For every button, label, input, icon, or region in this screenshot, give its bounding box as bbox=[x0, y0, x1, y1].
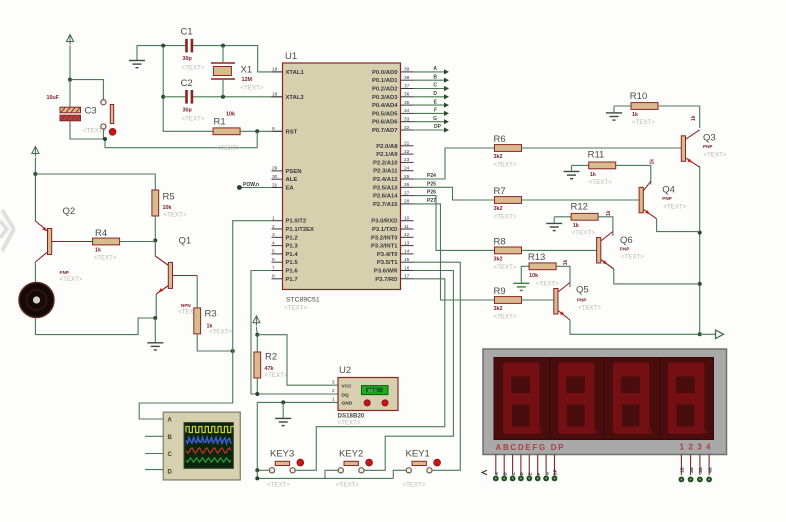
wire P0.0 to net A bbox=[414, 71, 445, 73]
svg-text:4B: 4B bbox=[707, 466, 712, 473]
wire P3.7 to KEY3 bbox=[295, 279, 445, 471]
svg-text:P3.4/T0: P3.4/T0 bbox=[377, 252, 398, 258]
power +5V (audio) bbox=[32, 147, 39, 157]
node output arrow bbox=[716, 330, 724, 339]
pin 2 P1.1/T2EX bbox=[272, 224, 315, 233]
svg-text:<TEXT>: <TEXT> bbox=[209, 329, 232, 336]
wire P0.2 to net C bbox=[414, 88, 445, 90]
pin 12 P3.2/INT0 bbox=[371, 232, 414, 241]
wire C1 to XTAL1 pin bbox=[193, 46, 283, 72]
svg-text:R12: R12 bbox=[571, 202, 588, 213]
capacitor C3 (electrolytic) bbox=[47, 95, 107, 135]
svg-text:A: A bbox=[433, 66, 437, 72]
svg-text:<TEXT>: <TEXT> bbox=[336, 482, 359, 489]
wire crystal bottom stub bbox=[222, 80, 224, 97]
svg-text:NPN: NPN bbox=[181, 303, 191, 308]
svg-text:P2.3/A11: P2.3/A11 bbox=[373, 169, 398, 175]
svg-text:ALE: ALE bbox=[286, 177, 298, 183]
svg-text:<TEXT>: <TEXT> bbox=[241, 85, 264, 92]
push button KEY2 bbox=[336, 449, 373, 489]
transistor Q1 (NPN) bbox=[155, 236, 201, 316]
wire R12 gnd stub bbox=[553, 217, 555, 224]
resistor R4 bbox=[93, 228, 120, 262]
svg-text:C: C bbox=[433, 83, 437, 89]
svg-text:<TEXT>: <TEXT> bbox=[338, 420, 361, 427]
svg-text:23: 23 bbox=[404, 157, 410, 163]
resistor R5 bbox=[152, 190, 187, 219]
svg-text:P3.1/TXD: P3.1/TXD bbox=[372, 227, 398, 233]
svg-text:2: 2 bbox=[272, 224, 275, 230]
speaker LS1 bbox=[19, 283, 54, 318]
wire crystal top stub bbox=[222, 46, 224, 62]
junction RST bbox=[255, 129, 259, 133]
junction crystal bottom bbox=[221, 95, 225, 99]
pin 27 P2.6/A14 bbox=[373, 190, 414, 199]
svg-text:4: 4 bbox=[272, 240, 275, 246]
svg-text:PNP: PNP bbox=[703, 144, 712, 149]
resistor R10 bbox=[630, 91, 658, 126]
svg-text:DP: DP bbox=[434, 124, 442, 130]
svg-text:29: 29 bbox=[272, 166, 278, 172]
svg-text:P2.7/A15: P2.7/A15 bbox=[373, 202, 398, 208]
svg-text:10k: 10k bbox=[163, 205, 172, 211]
node POW.n bbox=[237, 185, 242, 190]
svg-text:P1.0/T2: P1.0/T2 bbox=[286, 219, 307, 225]
svg-text:R13: R13 bbox=[528, 252, 545, 263]
svg-text:15: 15 bbox=[404, 257, 410, 263]
svg-text:P0.1/AD1: P0.1/AD1 bbox=[372, 78, 398, 84]
display 4-digit 7-segment bbox=[483, 349, 727, 455]
svg-text:26: 26 bbox=[404, 182, 410, 188]
wire P0.4 to net E bbox=[414, 104, 445, 106]
svg-text:34: 34 bbox=[404, 108, 410, 114]
svg-text:3k2: 3k2 bbox=[494, 256, 503, 262]
svg-text:27: 27 bbox=[404, 190, 410, 196]
pin 35 P0.4/AD4 bbox=[372, 100, 414, 109]
display segment pins A..DP bbox=[482, 455, 558, 482]
node A bbox=[433, 66, 449, 74]
wire P0.6 to net G bbox=[414, 121, 445, 123]
oscilloscope bbox=[163, 412, 240, 480]
svg-text:6: 6 bbox=[272, 257, 275, 263]
pin 11 P3.1/TXD bbox=[372, 224, 414, 233]
wire Q6 to rail bbox=[614, 269, 700, 284]
svg-text:P26: P26 bbox=[427, 190, 436, 196]
wire RST to reset button bbox=[105, 131, 257, 147]
svg-text:XTAL1: XTAL1 bbox=[286, 70, 305, 76]
node F bbox=[434, 108, 449, 116]
svg-text:22: 22 bbox=[404, 149, 410, 155]
svg-text:F: F bbox=[536, 473, 541, 476]
svg-text:1k: 1k bbox=[632, 112, 638, 118]
svg-text:PSEN: PSEN bbox=[286, 169, 302, 175]
wire P0.7 to net DP bbox=[414, 129, 445, 131]
crystal X1 bbox=[211, 63, 264, 92]
svg-text:R1: R1 bbox=[214, 117, 226, 128]
wire R13 to Q5 emitter bbox=[556, 266, 570, 287]
wire button bottom stub bbox=[102, 129, 104, 139]
pin 14 P3.4/T0 bbox=[377, 249, 414, 258]
svg-text:GND: GND bbox=[342, 401, 353, 407]
svg-text:9: 9 bbox=[272, 126, 275, 132]
svg-text:35: 35 bbox=[404, 100, 410, 106]
junction Q4 joins rail bbox=[698, 231, 702, 235]
wire ground to R10 bbox=[614, 105, 631, 107]
svg-text:P24: P24 bbox=[427, 173, 436, 179]
wire ground to R12 bbox=[554, 216, 571, 218]
svg-text:P2.5/A13: P2.5/A13 bbox=[373, 185, 398, 191]
svg-text:P0.2/AD2: P0.2/AD2 bbox=[372, 87, 398, 93]
svg-text:KEY1: KEY1 bbox=[406, 449, 430, 460]
svg-text:<TEXT>: <TEXT> bbox=[284, 305, 307, 312]
pin 39 P0.0/AD0 bbox=[372, 67, 414, 76]
wire P1.6 to U2 DQ bbox=[251, 271, 338, 395]
wire R9 to Q5 base bbox=[522, 299, 554, 301]
svg-text:<TEXT>: <TEXT> bbox=[403, 482, 426, 489]
svg-text:P0.6/AD6: P0.6/AD6 bbox=[372, 120, 398, 126]
svg-text:R8: R8 bbox=[494, 236, 506, 247]
wire P1.0 to R3/scope bbox=[139, 221, 271, 419]
wire P0.1 to net B bbox=[414, 79, 445, 81]
svg-text:3: 3 bbox=[272, 232, 275, 238]
pin 33 P0.6/AD6 bbox=[372, 117, 414, 126]
svg-text:P25: P25 bbox=[427, 181, 436, 187]
svg-text:A: A bbox=[168, 418, 173, 424]
wire R11 to Q4 emitter bbox=[616, 165, 651, 184]
pin 15 P3.5/T1 bbox=[377, 257, 414, 266]
pin 18 XTAL2 bbox=[272, 92, 305, 101]
svg-text:<TEXT>: <TEXT> bbox=[572, 230, 595, 237]
resistor R7 bbox=[494, 186, 522, 221]
wire U2 GND down to keys bbox=[257, 402, 338, 470]
svg-text:R4: R4 bbox=[95, 228, 107, 239]
svg-text:19: 19 bbox=[272, 67, 278, 73]
svg-text:3k2: 3k2 bbox=[494, 154, 503, 160]
svg-text:ABCDEFG DP: ABCDEFG DP bbox=[496, 443, 565, 452]
wire EA to POW bbox=[239, 187, 271, 189]
pin 22 P2.1/A9 bbox=[376, 149, 413, 158]
display digit-select pins 1..4 bbox=[679, 455, 713, 483]
svg-text:13: 13 bbox=[404, 240, 410, 246]
svg-text:P2.1/A9: P2.1/A9 bbox=[376, 152, 398, 158]
pin 34 P0.5/AD5 bbox=[372, 108, 414, 117]
svg-text:10: 10 bbox=[404, 216, 410, 222]
svg-text:Q3: Q3 bbox=[703, 133, 716, 144]
node G bbox=[433, 116, 449, 124]
wire power to reset node bbox=[69, 46, 71, 80]
wire scope input B stub bbox=[145, 435, 163, 437]
svg-text:5: 5 bbox=[272, 249, 275, 255]
wire power to node bbox=[255, 327, 258, 335]
svg-text:R7: R7 bbox=[494, 186, 506, 197]
svg-text:8: 8 bbox=[272, 274, 275, 280]
svg-text:P1.2: P1.2 bbox=[286, 235, 299, 241]
svg-text:Q5: Q5 bbox=[576, 285, 589, 296]
wire bus riser KEY2 bbox=[325, 470, 338, 478]
pin 8 P1.7 bbox=[272, 274, 299, 283]
resistor R9 bbox=[494, 286, 522, 321]
junction Q5 joins rail bbox=[698, 332, 702, 336]
junction audio rail bbox=[33, 172, 37, 176]
svg-text:C: C bbox=[168, 452, 173, 458]
pin 24 P2.3/A11 bbox=[373, 166, 413, 175]
wire key ground bus bbox=[257, 470, 393, 478]
svg-text:12M: 12M bbox=[242, 77, 253, 83]
svg-text:P3.6/WR: P3.6/WR bbox=[374, 269, 398, 275]
transistor Q5 (PNP) bbox=[554, 283, 602, 321]
pin 26 P2.5/A13 bbox=[373, 182, 414, 191]
svg-text:3k2: 3k2 bbox=[494, 206, 503, 212]
svg-text:1k: 1k bbox=[563, 260, 569, 266]
wire C1/C2 left rail to R1 bbox=[163, 46, 213, 132]
svg-text:1k: 1k bbox=[95, 248, 101, 254]
capacitor C1 bbox=[181, 27, 205, 72]
svg-text:36: 36 bbox=[404, 92, 410, 98]
svg-text:Q2: Q2 bbox=[63, 206, 76, 217]
svg-text:<TEXT>: <TEXT> bbox=[267, 482, 290, 489]
wire C2 to XTAL2 pin bbox=[193, 96, 283, 98]
svg-text:KEY2: KEY2 bbox=[339, 449, 363, 460]
junction R3/P1.0 bbox=[231, 349, 235, 353]
pin 7 P1.6 bbox=[272, 265, 299, 274]
ground (R11) bbox=[564, 172, 580, 179]
svg-text:3B: 3B bbox=[698, 466, 703, 473]
svg-text:P3.0/RXD: P3.0/RXD bbox=[371, 219, 397, 225]
wire R6 to Q3 base bbox=[522, 147, 682, 149]
svg-text:25: 25 bbox=[404, 174, 410, 180]
svg-text:PNP: PNP bbox=[577, 298, 586, 303]
svg-text:R9: R9 bbox=[494, 286, 506, 297]
svg-text:P1.6: P1.6 bbox=[286, 269, 299, 275]
wire scope input C stub bbox=[145, 453, 163, 455]
svg-text:1: 1 bbox=[332, 397, 335, 403]
svg-text:<TEXT>: <TEXT> bbox=[265, 372, 288, 379]
wire P2.5 to R7 bbox=[414, 187, 495, 200]
svg-text:1B: 1B bbox=[680, 466, 685, 473]
svg-text:38: 38 bbox=[404, 75, 410, 81]
pin 5 P1.4 bbox=[272, 249, 299, 258]
node D bbox=[433, 91, 449, 99]
transistor Q6 (PNP) bbox=[597, 232, 645, 270]
wire ground to R11 bbox=[572, 164, 589, 166]
pin 13 P3.3/INT1 bbox=[371, 240, 414, 249]
svg-text:R6: R6 bbox=[494, 134, 506, 145]
svg-text:30p: 30p bbox=[183, 108, 193, 114]
push button RESET bbox=[101, 100, 116, 136]
svg-text:1k: 1k bbox=[590, 172, 596, 178]
resistor R6 bbox=[494, 134, 522, 169]
svg-text:85.0: 85.0 bbox=[368, 388, 377, 393]
wire Q5 to rail / output bbox=[570, 320, 716, 334]
svg-text:32: 32 bbox=[404, 125, 410, 131]
svg-text:1: 1 bbox=[272, 216, 275, 222]
svg-text:PNP: PNP bbox=[620, 247, 629, 252]
wire node to Q1 collector bbox=[154, 241, 156, 257]
svg-text:D: D bbox=[433, 91, 437, 97]
wire power to U2 VCC bbox=[257, 335, 338, 386]
pin 3 P1.2 bbox=[272, 232, 299, 241]
node E bbox=[434, 99, 449, 107]
svg-text:STC89C51: STC89C51 bbox=[286, 297, 320, 304]
svg-text:7: 7 bbox=[272, 265, 275, 271]
wire P2.7 to R9 bbox=[414, 204, 495, 300]
svg-text:<TEXT>: <TEXT> bbox=[494, 214, 517, 221]
resistor R8 bbox=[494, 236, 522, 271]
wire scope input D stub bbox=[145, 469, 163, 471]
pin 1 P1.0/T2 bbox=[272, 216, 307, 225]
wire R12 to Q6 emitter bbox=[598, 217, 613, 236]
svg-text:10uF: 10uF bbox=[47, 95, 60, 101]
junction GND stub bbox=[281, 400, 285, 404]
svg-text:EA: EA bbox=[286, 186, 295, 192]
svg-text:R11: R11 bbox=[588, 150, 605, 161]
pin 25 P2.4/A12 bbox=[373, 174, 414, 183]
svg-text:XTAL2: XTAL2 bbox=[286, 95, 305, 101]
svg-text:P2.4/A12: P2.4/A12 bbox=[373, 177, 398, 183]
svg-text:P2.6/A14: P2.6/A14 bbox=[373, 194, 398, 200]
junction crystal top bbox=[221, 44, 225, 48]
wire R10 to Q3 emitter bbox=[658, 106, 700, 128]
wire Q3 collector rail bbox=[699, 166, 701, 334]
wire P2.6 to R8 bbox=[414, 196, 495, 251]
svg-text:11: 11 bbox=[404, 224, 409, 230]
digit 1 bbox=[503, 363, 542, 435]
svg-text:P0.5/AD5: P0.5/AD5 bbox=[372, 111, 398, 117]
svg-text:B: B bbox=[433, 74, 437, 80]
svg-text:<TEXT>: <TEXT> bbox=[494, 162, 517, 169]
svg-text:P2.2/A10: P2.2/A10 bbox=[373, 160, 398, 166]
wire Q1 emitter down bbox=[155, 294, 157, 318]
node C bbox=[433, 83, 449, 91]
junction C1 left bbox=[161, 44, 165, 48]
svg-text:POW.n: POW.n bbox=[243, 182, 259, 188]
junction button/C3 bbox=[103, 137, 107, 141]
svg-text:G: G bbox=[544, 472, 549, 476]
svg-text:PNP: PNP bbox=[662, 196, 671, 201]
wire P0.3 to net D bbox=[414, 96, 445, 98]
wire P0.5 to net F bbox=[414, 112, 445, 114]
node DP bbox=[434, 124, 449, 132]
wire XTAL1 net to ground bbox=[137, 46, 185, 60]
pin 4 P1.3 bbox=[272, 240, 299, 249]
pin 31 EA bbox=[272, 182, 295, 191]
svg-text:<TEXT>: <TEXT> bbox=[632, 119, 655, 126]
wire Q1 base to R3 bbox=[196, 276, 198, 308]
svg-text:<TEXT>: <TEXT> bbox=[182, 65, 205, 72]
svg-text:B: B bbox=[168, 435, 173, 441]
svg-text:17: 17 bbox=[404, 274, 410, 280]
svg-text:P1.7: P1.7 bbox=[286, 277, 299, 283]
wire rail to R5 top bbox=[35, 174, 155, 190]
pin 16 P3.6/WR bbox=[374, 265, 414, 274]
svg-text:10k: 10k bbox=[529, 273, 538, 279]
pin 6 P1.5 bbox=[272, 257, 299, 266]
svg-text:DS18B20: DS18B20 bbox=[338, 413, 365, 420]
svg-text:33: 33 bbox=[404, 117, 410, 123]
wire R5 bottom bbox=[154, 216, 156, 241]
junction key bus 2 bbox=[255, 476, 259, 480]
wire Q2 emitter riser bbox=[34, 174, 36, 221]
svg-text:18: 18 bbox=[272, 92, 278, 98]
wire R11 gnd stub bbox=[571, 165, 573, 171]
wire Q4 to rail bbox=[657, 219, 700, 232]
svg-text:P2.0/A8: P2.0/A8 bbox=[376, 144, 398, 150]
svg-text:P3.5/T1: P3.5/T1 bbox=[377, 260, 398, 266]
ground (U2) bbox=[275, 418, 291, 425]
digit 2 bbox=[558, 363, 597, 435]
svg-text:U1: U1 bbox=[285, 51, 297, 62]
wire to C3 top bbox=[69, 80, 71, 107]
svg-text:PNP: PNP bbox=[60, 270, 69, 275]
wire P2.4 to R6 bbox=[414, 148, 495, 179]
svg-text:<TEXT>: <TEXT> bbox=[536, 281, 559, 288]
svg-text:P3.7/RD: P3.7/RD bbox=[375, 277, 397, 283]
wire R7 to Q4 base bbox=[522, 199, 640, 201]
svg-text:E: E bbox=[528, 472, 533, 475]
svg-text:30: 30 bbox=[272, 174, 278, 180]
wire R13 to ground bbox=[521, 266, 529, 283]
wire C3 bottom to node bbox=[70, 121, 105, 139]
ground (crystal) bbox=[129, 61, 145, 68]
svg-text:DP: DP bbox=[553, 469, 558, 475]
ground (R10) bbox=[606, 113, 622, 120]
svg-text:R3: R3 bbox=[205, 309, 217, 320]
svg-text:1k: 1k bbox=[691, 115, 697, 121]
svg-text:1k: 1k bbox=[573, 223, 579, 229]
pin 17 P3.7/RD bbox=[375, 274, 413, 283]
wire R4 to node bbox=[120, 241, 156, 243]
svg-text:G: G bbox=[433, 116, 437, 122]
svg-text:<TEXT>: <TEXT> bbox=[589, 179, 612, 186]
push button KEY1 bbox=[403, 449, 441, 489]
pin 38 P0.1/AD1 bbox=[372, 75, 414, 84]
svg-text:C2: C2 bbox=[181, 78, 193, 89]
wire bus to KEY3 left bbox=[257, 469, 269, 471]
svg-text:12: 12 bbox=[404, 232, 410, 238]
svg-text:3k2: 3k2 bbox=[494, 306, 503, 312]
junction C2 left bbox=[161, 95, 165, 99]
resistor R13 bbox=[528, 252, 560, 288]
svg-text:10k: 10k bbox=[226, 112, 235, 118]
svg-text:37: 37 bbox=[404, 83, 410, 89]
svg-text:1k: 1k bbox=[650, 159, 656, 165]
wire Q2 collector to speaker bbox=[34, 262, 36, 283]
svg-text:Q4: Q4 bbox=[662, 185, 675, 196]
wire to R2 top bbox=[256, 335, 258, 352]
pin 30 ALE bbox=[272, 174, 298, 183]
svg-text:1k: 1k bbox=[606, 210, 612, 216]
ground (audio) bbox=[147, 343, 163, 350]
svg-text:P1.5: P1.5 bbox=[286, 260, 299, 266]
svg-text:<TEXT>: <TEXT> bbox=[182, 116, 205, 123]
svg-text:X1: X1 bbox=[241, 65, 253, 76]
op-amp U1 microcontroller STC89C51 body bbox=[283, 51, 401, 312]
wire speaker return bbox=[35, 318, 155, 335]
digit 4 bbox=[668, 363, 707, 435]
resistor R3 bbox=[194, 308, 233, 336]
svg-text:Q1: Q1 bbox=[179, 236, 192, 247]
pin 19 XTAL1 bbox=[272, 67, 305, 76]
svg-text:<TEXT>: <TEXT> bbox=[704, 152, 727, 159]
wire to button top bbox=[70, 80, 103, 100]
wire power down bbox=[34, 158, 36, 175]
pin 36 P0.3/AD3 bbox=[372, 92, 414, 101]
junction Q6 joins rail bbox=[698, 282, 702, 286]
svg-text:P27: P27 bbox=[427, 198, 436, 204]
ground (R12) bbox=[546, 223, 562, 230]
wire C2 left bbox=[163, 96, 185, 98]
push button KEY3 bbox=[267, 449, 304, 489]
